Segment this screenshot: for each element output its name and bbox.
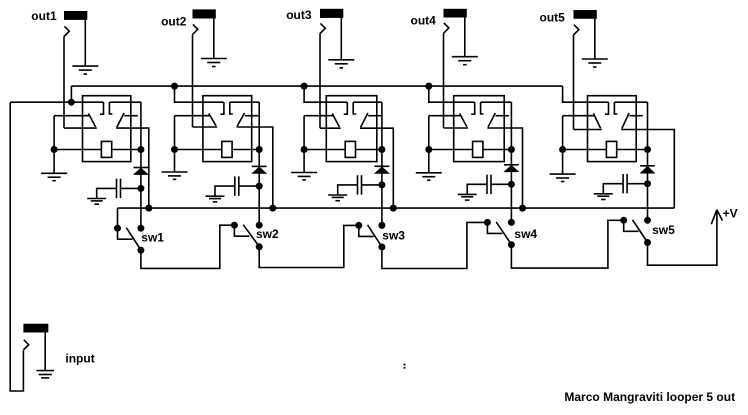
junction diode D1 / capacitor C1 (137, 185, 144, 192)
junction diode D4 / capacitor C4 (508, 181, 515, 188)
ground (capacitor C5) (594, 193, 613, 195)
wire capacitor C2 right plate (239, 185, 259, 187)
ground (jack out2) (201, 58, 227, 60)
relay RL4 left blade (460, 113, 467, 126)
wire capacitor C1 left plate to ground (97, 188, 117, 198)
ground (capacitor C4) (458, 193, 477, 195)
relay RL2 body (203, 96, 252, 162)
ground (capacitor C1) (87, 198, 106, 200)
switch sw1 throw stub (118, 228, 133, 239)
svg-text:Marco Mangraviti looper 5 out: Marco Mangraviti looper 5 out (564, 390, 735, 404)
wire left column down to coil RL5 (562, 116, 564, 150)
junction switch sw5 upper (644, 217, 651, 224)
relay RL2 right blade (237, 113, 244, 126)
wire diode D2 anode down (258, 150, 260, 167)
svg-text:input: input (65, 352, 94, 366)
wire switch sw3 pole zigzag to next stage (382, 222, 488, 268)
wire left column down to coil RL3 (303, 116, 305, 150)
wire diode column to switch sw1 (140, 188, 142, 228)
jack J5 (out5) body (574, 10, 597, 19)
svg-text:sw5: sw5 (652, 223, 675, 237)
diode D5 cathode bar (640, 165, 655, 167)
diode D2 cathode bar (252, 165, 267, 167)
relay RL3 left blade (332, 113, 339, 127)
wire jack J4 sleeve to ground (464, 18, 466, 57)
relay RL5 right fixed contact (614, 102, 617, 114)
ground (jack out4) (452, 56, 478, 58)
wire relay RL2 right blade stub (245, 115, 258, 117)
wire diode D4 anode down (510, 150, 512, 165)
wire jack out4 to left blade pivot (444, 127, 469, 129)
wire jack J4 tip down to relay pivot (443, 33, 445, 128)
junction coil RL2 right / diode D2 (256, 146, 263, 153)
ground (coil RL4) (428, 150, 430, 173)
wire capacitor C3 left plate to ground (338, 185, 358, 195)
wire relay RL2 right contact bar to diode column (230, 101, 259, 103)
switch sw4 left contact (484, 219, 491, 226)
wire relay RL2 right blade to bottom bus (237, 127, 273, 208)
wire relay RL5 right contact bar to diode column (614, 101, 647, 103)
wire switch sw4 pole zigzag to next stage (511, 220, 623, 268)
ground (capacitor C2) (206, 195, 225, 197)
wire capacitor C3 right plate (362, 184, 382, 186)
wire jack J3 tip down to relay pivot (319, 34, 321, 129)
wire capacitor C2 left plate to ground (215, 186, 235, 196)
relay RL1 body (83, 96, 131, 162)
relay RL5 right blade (622, 113, 629, 129)
wire relay RL4 left blade pivot (429, 115, 461, 117)
wire switch sw1 pole zigzag to next stage (141, 225, 235, 268)
switch sw1 blade (126, 228, 139, 249)
ground (coil RL2) (174, 150, 176, 173)
wire capacitor C4 left plate to ground (467, 184, 487, 194)
wire relay RL1 right contact bar to diode column (109, 101, 140, 103)
switch sw3 pole (378, 244, 385, 251)
relay RL1 right fixed contact (109, 102, 112, 114)
switch sw4 blade (496, 222, 510, 243)
wire input jack sleeve to ground (44, 333, 46, 371)
ground (jack out1) (72, 65, 98, 67)
relay RL2 right fixed contact (230, 102, 233, 114)
wire capacitor C5 right plate (627, 183, 647, 185)
wire coil RL2 right (232, 149, 259, 151)
wire relay RL4 right contact bar to diode column (481, 101, 512, 103)
svg-text:+V: +V (723, 206, 738, 220)
relay RL4 right blade (488, 113, 495, 127)
wire diode column to switch sw4 (510, 184, 512, 222)
wire jack J1 tip down to relay pivot (63, 37, 65, 129)
wire top bus drop to relay RL5 left contact (563, 86, 609, 102)
wire jack out1 to left blade pivot (64, 127, 97, 129)
wire top bus drop to relay RL2 left contact (175, 86, 224, 102)
wire coil RL1 left (54, 149, 101, 151)
switch sw1 left contact (114, 225, 121, 232)
wire coil RL1 right (112, 149, 141, 151)
ground (input jack) (36, 370, 54, 372)
wire jack J1 sleeve to ground (84, 20, 86, 66)
svg-text:out1: out1 (31, 9, 57, 23)
diode D3 cathode bar (375, 165, 390, 167)
wire relay RL5 right blade to bottom bus (621, 130, 674, 209)
+V supply arrow (711, 210, 717, 225)
relay RL4 body (454, 96, 505, 162)
switch sw3 throw stub (359, 225, 374, 236)
relay RL1 right blade (117, 113, 124, 127)
wire switch sw5 pole zigzag to next stage (648, 210, 717, 266)
wire top bus drop at relay RL1 (70, 86, 72, 102)
wire input jack tip up the left side to relay RL1 (10, 102, 23, 391)
capacitor C3 (357, 175, 359, 194)
junction bottom bus at block 4 (519, 205, 526, 212)
relay RL1 left blade (88, 113, 95, 127)
wire top signal bus (71, 85, 562, 87)
svg-text:out4: out4 (411, 13, 437, 27)
wire top bus drop to relay RL4 left contact (429, 86, 475, 102)
junction coil RL3 right / diode D3 (378, 146, 385, 153)
junction coil RL5 right / diode D5 (644, 146, 651, 153)
jack J2 tip contact (chevron) (193, 24, 198, 34)
relay RL3 right blade (361, 113, 368, 127)
relay RL1 coil (101, 141, 111, 157)
wire input net to relay RL1 left contact (10, 101, 103, 103)
ground (capacitor C3) (328, 194, 347, 196)
diode D5 (640, 166, 656, 174)
stray colon mark (404, 364, 406, 366)
ground (coil RL5) (562, 150, 564, 175)
junction coil RL1 right / diode D1 (137, 146, 144, 153)
wire diode D1 anode down (140, 150, 142, 168)
wire diode D3 anode down (381, 150, 383, 167)
junction coil RL3 left / ground (301, 146, 308, 153)
wire left column down to coil RL4 (428, 116, 430, 150)
jack J4 tip contact (chevron) (444, 23, 449, 33)
svg-text:out3: out3 (286, 8, 312, 22)
wire relay RL3 right contact bar to diode column (353, 101, 382, 103)
ground (jack out5) (582, 58, 608, 60)
wire left column down to coil RL2 (174, 116, 176, 150)
wire jack J2 tip down to relay pivot (192, 35, 194, 127)
wire coil RL4 left (429, 149, 473, 151)
junction coil RL4 left / ground (425, 146, 432, 153)
wire coil RL3 left (304, 149, 345, 151)
wire coil RL5 left (563, 149, 607, 151)
relay RL2 left fixed contact (220, 102, 224, 114)
ground (jack out3) (328, 59, 354, 61)
relay RL4 left fixed contact (471, 102, 475, 114)
diode D4 cathode bar (504, 164, 519, 166)
wire coil RL2 left (175, 149, 222, 151)
switch sw5 left contact (620, 217, 627, 224)
relay RL3 body (326, 96, 377, 162)
junction switch sw1 upper (137, 225, 144, 232)
junction node at RL1 left contact (68, 99, 75, 106)
diode D1 cathode bar (134, 167, 149, 169)
wire relay RL3 left blade pivot (304, 115, 333, 117)
ground (coil RL1) (53, 150, 55, 174)
wire bottom bus drop to switch sw1 (117, 208, 119, 228)
wire switch sw2 pole zigzag to next stage (259, 225, 359, 267)
svg-text:sw4: sw4 (514, 227, 537, 241)
relay RL3 right fixed contact (353, 102, 356, 114)
relay RL5 coil (606, 141, 616, 157)
wire relay RL3 right blade stub (368, 115, 381, 117)
wire jack J5 sleeve to ground (594, 19, 596, 59)
junction coil RL2 left / ground (171, 146, 178, 153)
relay RL1 left fixed contact (100, 102, 104, 114)
svg-text:out5: out5 (540, 11, 566, 25)
jack J2 (out2) body (193, 9, 216, 18)
relay RL2 coil (222, 141, 232, 157)
wire relay RL3 right blade to bottom bus (360, 128, 393, 208)
switch sw1 pole (137, 247, 144, 254)
junction coil RL5 left / ground (559, 146, 566, 153)
junction switch sw2 upper (256, 222, 263, 229)
jack J3 tip contact (chevron) (320, 23, 325, 33)
wire top bus drop to relay RL3 left contact (304, 86, 347, 102)
junction switch sw3 upper (378, 222, 385, 229)
switch sw3 left contact (355, 222, 362, 229)
junction coil RL1 left / ground (51, 146, 58, 153)
switch sw5 blade (633, 220, 647, 241)
junction top bus at block 3 (301, 83, 308, 90)
wire left column down to coil RL1 (53, 116, 55, 150)
wire coil RL4 right (483, 149, 512, 151)
relay RL3 left fixed contact (344, 102, 348, 114)
switch sw2 pole (256, 243, 263, 250)
wire diode column to switch sw2 (258, 186, 260, 225)
relay RL4 right fixed contact (481, 102, 484, 114)
wire jack out5 to left blade pivot (574, 129, 602, 131)
junction top bus at block 2 (171, 83, 178, 90)
wire relay RL4 right blade to bottom bus (487, 128, 522, 208)
wire capacitor C5 left plate to ground (603, 184, 623, 194)
wire relay RL5 right blade stub (629, 115, 642, 117)
switch sw2 left contact (231, 222, 238, 229)
junction bottom bus at block 3 (390, 205, 397, 212)
wire jack J2 sleeve to ground (213, 19, 215, 59)
junction diode D5 / capacitor C5 (644, 180, 651, 187)
junction diode D3 / capacitor C3 (378, 181, 385, 188)
wire relay RL2 left blade pivot (175, 115, 211, 117)
relay RL3 coil (345, 141, 355, 157)
junction bottom bus at block 1 (145, 205, 152, 212)
junction diode D2 / capacitor C2 (256, 183, 263, 190)
svg-text:out2: out2 (161, 14, 187, 28)
wire relay RL1 right blade to bottom bus (116, 128, 149, 208)
capacitor C1 (116, 179, 118, 198)
switch sw4 throw stub (487, 222, 502, 233)
wire relay RL4 right blade stub (496, 115, 509, 117)
jack J4 (out4) body (444, 9, 467, 18)
jack J5 tip contact (chevron) (574, 25, 579, 35)
relay RL5 left fixed contact (605, 102, 609, 114)
diode D2 (251, 167, 267, 174)
svg-text:sw2: sw2 (256, 227, 279, 241)
wire relay RL5 left blade pivot (563, 115, 595, 117)
switch sw2 blade (243, 225, 258, 245)
relay RL2 left blade (209, 113, 216, 125)
relay RL5 body (588, 96, 637, 162)
relay RL4 coil (473, 141, 483, 157)
capacitor C5 (622, 174, 624, 193)
wire jack out2 to left blade pivot (193, 126, 218, 128)
switch sw3 blade (368, 225, 381, 245)
relay RL5 left blade (593, 113, 600, 128)
wire relay RL1 right blade stub (124, 115, 137, 117)
wire capacitor C1 right plate (121, 187, 141, 189)
jack J6 tip contact (chevron) (23, 340, 28, 350)
switch sw5 pole (644, 239, 651, 246)
wire diode D5 anode down (647, 150, 649, 166)
wire diode column to switch sw3 (381, 185, 383, 226)
wire diode column to switch sw5 (647, 184, 649, 221)
wire jack J5 tip down to relay pivot (573, 35, 575, 130)
wire capacitor C4 right plate (491, 183, 511, 185)
diode D1 (133, 168, 149, 175)
wire jack out3 to left blade pivot (320, 127, 341, 129)
switch sw5 throw stub (624, 220, 639, 231)
svg-text:sw1: sw1 (141, 231, 164, 245)
jack J3 (out3) body (320, 9, 343, 18)
svg-text:sw3: sw3 (382, 229, 405, 243)
jack J6 (input) body (23, 324, 48, 333)
switch sw2 throw stub (234, 225, 249, 236)
junction switch sw4 upper (508, 219, 515, 226)
switch sw4 pole (508, 241, 515, 248)
junction bottom bus at block 2 (269, 205, 276, 212)
jack J1 tip contact (chevron) (64, 26, 69, 36)
wire coil RL5 right (617, 149, 648, 151)
junction coil RL4 right / diode D4 (508, 146, 515, 153)
wire coil RL3 right (356, 149, 382, 151)
junction top bus at block 4 (425, 83, 432, 90)
capacitor C2 (234, 176, 236, 195)
wire bottom supply bus (118, 207, 675, 209)
jack J1 (out1) body (64, 11, 87, 20)
ground (coil RL3) (303, 150, 305, 173)
diode D4 (503, 165, 519, 172)
wire relay RL1 left blade pivot (54, 115, 90, 117)
diode D3 (374, 166, 390, 173)
capacitor C4 (486, 175, 488, 194)
wire jack J3 sleeve to ground (340, 18, 342, 60)
